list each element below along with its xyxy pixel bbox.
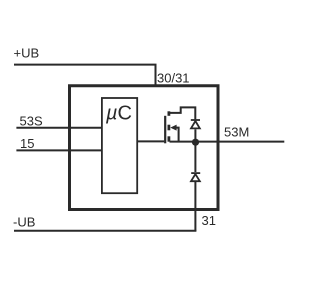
svg-text:-UB: -UB — [13, 215, 35, 230]
svg-text:53S: 53S — [20, 113, 43, 128]
svg-text:31: 31 — [202, 213, 216, 228]
svg-text:53M: 53M — [224, 125, 249, 140]
svg-text:µC: µC — [105, 102, 132, 124]
svg-text:15: 15 — [20, 136, 34, 151]
svg-text:30/31: 30/31 — [157, 71, 190, 86]
svg-text:+UB: +UB — [14, 46, 40, 61]
